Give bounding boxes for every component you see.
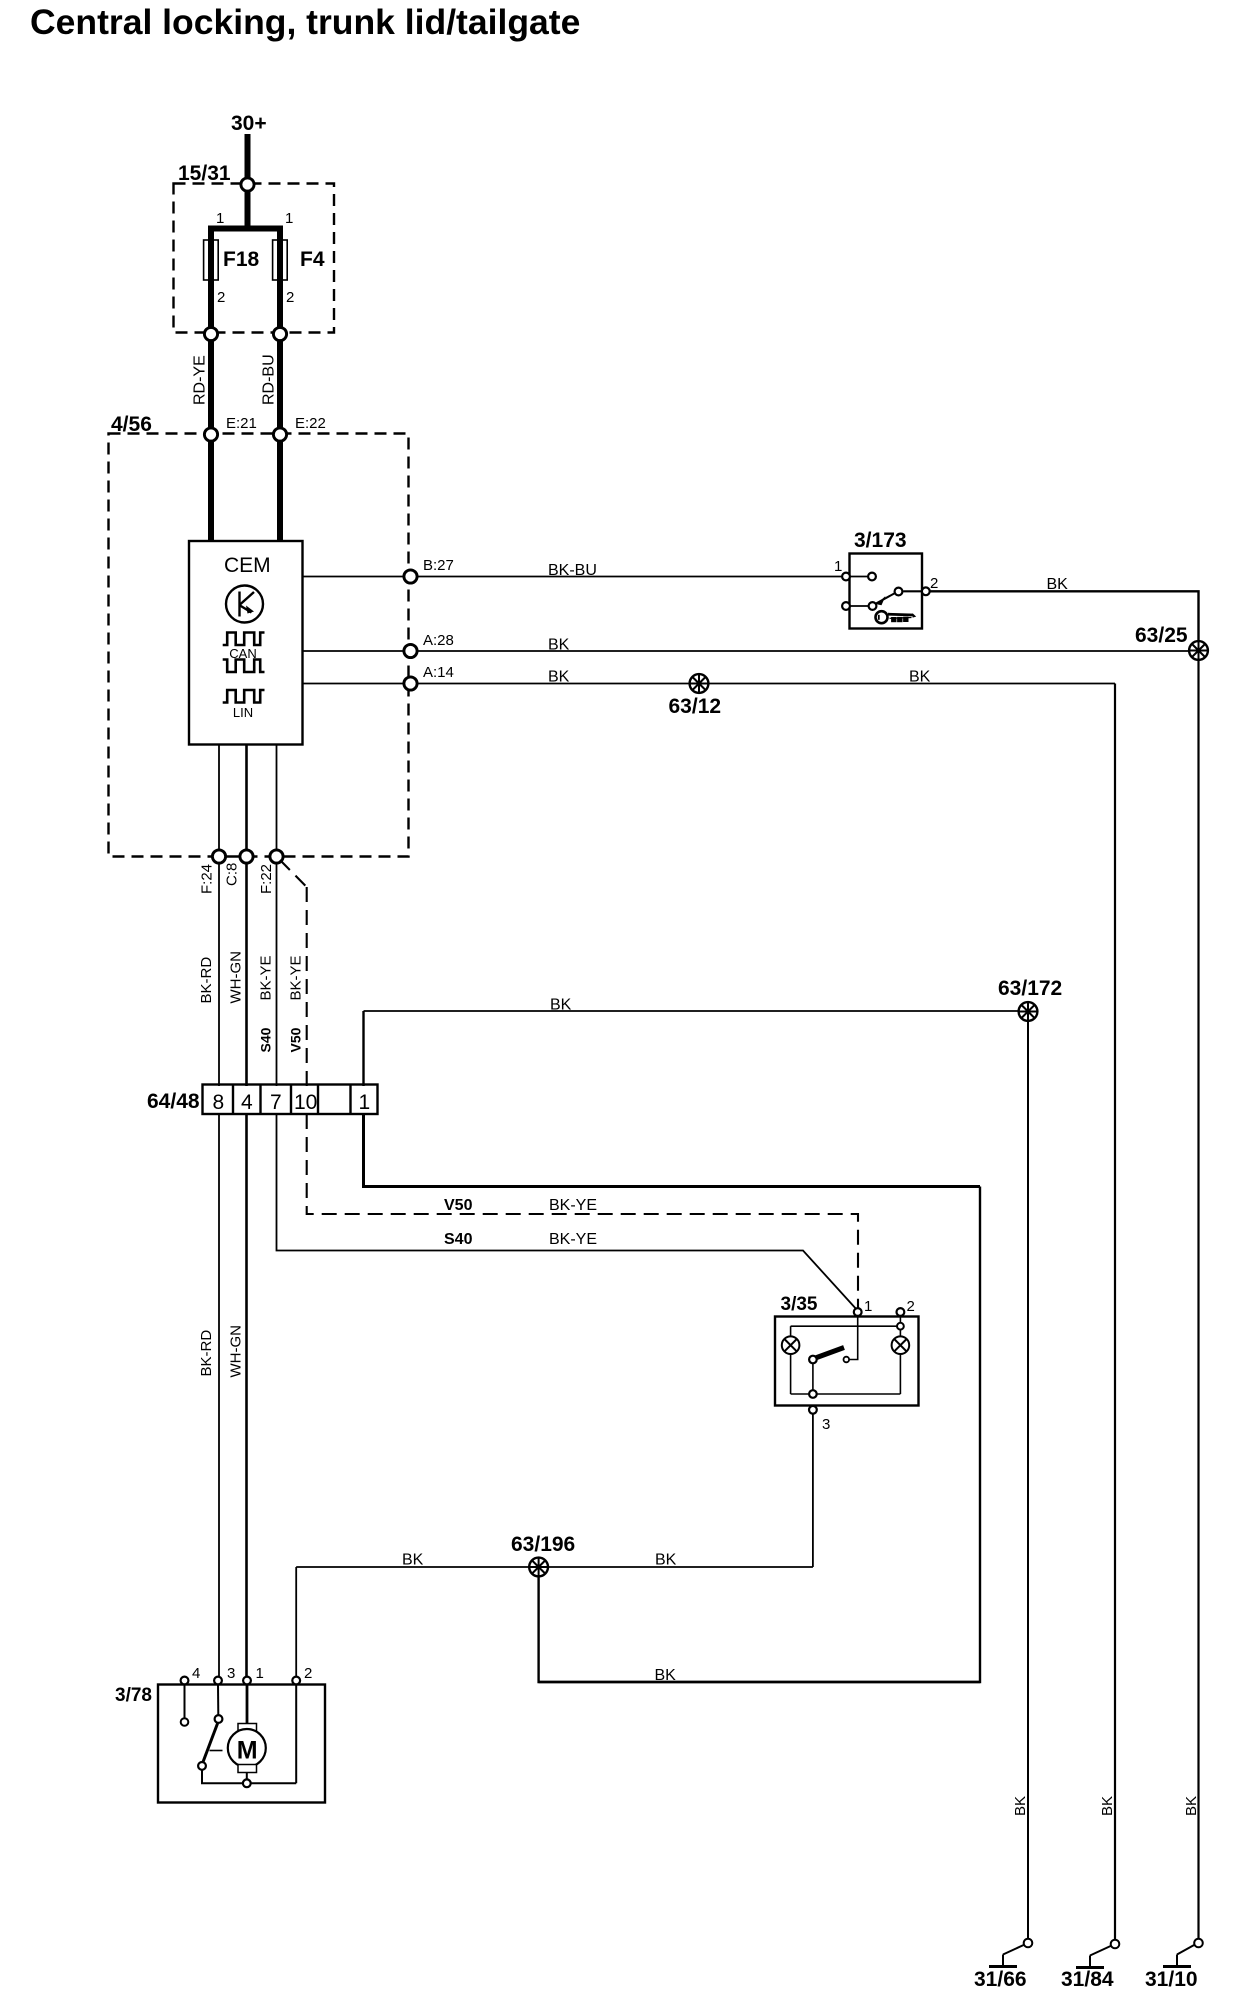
switch 3/35 pin 2: [897, 1308, 905, 1316]
svg-text:BK: BK: [1183, 1796, 1200, 1816]
svg-text:V50: V50: [444, 1197, 473, 1214]
3/78 switch top terminal wire: [217, 1685, 219, 1715]
svg-text:F:22: F:22: [258, 864, 275, 894]
svg-text:BK: BK: [1099, 1796, 1116, 1816]
wire S40 below connector: [277, 1114, 859, 1311]
3/78 switch tick: [210, 1750, 223, 1752]
fuse box 15/31 dashed outline: [174, 184, 335, 333]
wire BK-RD lower label: [198, 1330, 215, 1377]
wire RD-YE: [208, 341, 214, 428]
wire E:22 into CEM: [277, 442, 283, 542]
ground lead 31/10 vertical: [1197, 651, 1199, 1943]
wire CEM pin C:8 down: [245, 745, 248, 851]
svg-text:BK: BK: [548, 637, 570, 654]
svg-text:B:27: B:27: [423, 557, 454, 574]
svg-text:3/78: 3/78: [115, 1685, 152, 1706]
wire CEM pin F:22 down: [276, 745, 278, 851]
pin F:24 label: [199, 864, 216, 894]
wire BK-RD to 3/78: [218, 1114, 220, 1676]
svg-text:1: 1: [285, 210, 293, 227]
svg-text:63/196: 63/196: [511, 1533, 575, 1556]
junction node A:28: [404, 644, 417, 657]
svg-text:1: 1: [216, 210, 224, 227]
wire 63/196 down and right: [539, 1567, 980, 1682]
svg-text:LIN: LIN: [233, 705, 253, 720]
wire fuse F4 branch: [277, 226, 283, 331]
net S40 vertical label: [258, 1027, 274, 1052]
svg-text:2: 2: [907, 1298, 915, 1315]
CEM transistor symbol: [226, 586, 263, 623]
wire BK 31/10 label: [1183, 1796, 1200, 1816]
motor M top brush: [238, 1724, 257, 1732]
lamp right in 3/35: [892, 1336, 910, 1354]
switch 3/35 blade: [814, 1348, 844, 1359]
junction node E:22: [273, 428, 286, 441]
junction node F:22: [270, 850, 283, 863]
3/78 pin 2: [292, 1677, 300, 1685]
svg-text:31/84: 31/84: [1061, 1968, 1114, 1991]
junction node F:24: [212, 850, 225, 863]
wire WH-GN C:8 to connector: [245, 864, 248, 1086]
switch 3/173 inner contact 1: [851, 573, 876, 581]
svg-text:31/10: 31/10: [1145, 1968, 1198, 1991]
wire BK horizontal via 63/196: [296, 1566, 813, 1568]
svg-text:BK: BK: [655, 1552, 677, 1569]
wire 3/35 pin3 down: [812, 1414, 814, 1567]
wire BK via 63/12 to right: [418, 683, 1115, 685]
switch 3/173 pin 2: [922, 587, 930, 595]
wire BK from 3/173 to 63/25: [931, 591, 1199, 651]
svg-text:63/12: 63/12: [669, 695, 722, 718]
wire WH-GN to 3/78: [245, 1114, 248, 1676]
wire CEM B:27 stub: [303, 576, 404, 578]
switch 3/173 blade: [876, 588, 921, 606]
svg-text:1: 1: [834, 558, 842, 575]
switch 3/35 internal wiring: [791, 1317, 901, 1395]
wire BK-RD color label: [198, 957, 215, 1004]
wire BK-BU to 3/173: [418, 576, 846, 578]
switch 3/35 pivot: [809, 1356, 817, 1364]
wire RD-YE color label: [192, 355, 209, 405]
svg-text:2: 2: [304, 1665, 312, 1682]
switch 3/35 contact: [844, 1357, 850, 1363]
pin C:8 label: [224, 863, 241, 886]
svg-text:BK: BK: [1047, 576, 1069, 593]
svg-text:WH-GN: WH-GN: [228, 951, 245, 1004]
junction node F18 out: [204, 327, 217, 340]
wire node to fuse bus: [245, 190, 251, 231]
3/78 switch blade: [203, 1724, 218, 1763]
wire fuse F18 branch: [208, 226, 214, 331]
svg-text:F:24: F:24: [199, 864, 216, 894]
wire CEM A:28 stub: [303, 650, 404, 652]
svg-text:63/172: 63/172: [998, 977, 1062, 1000]
CEM LIN symbol: [223, 690, 265, 703]
svg-text:V50: V50: [288, 1027, 304, 1052]
svg-text:BK-YE: BK-YE: [258, 955, 275, 1000]
wire BK down right side: [539, 1187, 980, 1683]
CEM unit box: [189, 541, 303, 745]
ground splice 63/196 symbol: [529, 1558, 548, 1577]
svg-text:BK-RD: BK-RD: [198, 957, 215, 1004]
3/78 switch pivot: [198, 1762, 206, 1770]
svg-text:BK: BK: [548, 669, 570, 686]
switch 3/173 pin 1: [842, 573, 850, 581]
wire BK to 63/172: [364, 1010, 1029, 1012]
switch 3/35 bottom junction: [809, 1390, 817, 1398]
svg-text:10: 10: [294, 1091, 317, 1114]
3/78 switch top contact: [215, 1715, 223, 1723]
svg-text:C:8: C:8: [224, 863, 241, 886]
wire BK-YE V50 dashed diagonal: [280, 860, 307, 887]
svg-text:E:21: E:21: [226, 415, 257, 432]
junction node F4 out: [273, 327, 286, 340]
3/78 pin 4 open terminal: [181, 1718, 189, 1726]
wire BK-YE S40 to connector: [276, 864, 278, 1086]
svg-text:63/25: 63/25: [1135, 624, 1188, 647]
svg-text:BK-BU: BK-BU: [548, 562, 597, 579]
wire BK-YE V50 dashed down: [306, 887, 308, 1086]
svg-text:1: 1: [864, 1298, 872, 1315]
3/78 pin 4: [181, 1677, 189, 1685]
svg-text:4: 4: [241, 1091, 253, 1114]
svg-text:BK: BK: [402, 1552, 424, 1569]
CEM dashed boundary 4/56: [109, 434, 409, 857]
motor M bottom brush: [238, 1765, 257, 1773]
svg-text:S40: S40: [444, 1231, 473, 1248]
3/78 pin 1: [243, 1677, 251, 1685]
wire 64/48 pin1 down right: [364, 1114, 981, 1187]
CEM CAN symbol: [223, 633, 265, 673]
svg-text:CAN: CAN: [229, 646, 256, 661]
switch 3/173 lower pin: [842, 602, 850, 610]
junction node E:21: [204, 428, 217, 441]
net V50 vertical label: [288, 1027, 304, 1052]
svg-text:BK-YE: BK-YE: [549, 1231, 597, 1248]
switch 3/173 key symbol: [876, 611, 917, 623]
wire CEM A:14 stub: [303, 683, 404, 685]
wire BK-RD F:24 to connector: [218, 864, 220, 1086]
fuse F4 symbol: [273, 240, 288, 280]
fuse F18 symbol: [204, 240, 219, 280]
svg-text:E:22: E:22: [295, 415, 326, 432]
svg-text:RD-BU: RD-BU: [261, 354, 278, 405]
wire BK-YE V50 color label: [288, 955, 305, 1000]
3/78 motor feed wire: [246, 1685, 249, 1724]
svg-text:15/31: 15/31: [178, 162, 231, 185]
svg-text:8: 8: [213, 1091, 225, 1114]
svg-text:A:14: A:14: [423, 664, 454, 681]
svg-text:BK: BK: [1012, 1796, 1029, 1816]
junction node A:14: [404, 677, 417, 690]
ground terminal 31/10: [1163, 1939, 1203, 1967]
switch 3/173 inner contact 2: [851, 602, 877, 610]
svg-text:M: M: [237, 1737, 258, 1765]
motor bottom terminal: [243, 1779, 251, 1787]
svg-text:3: 3: [822, 1416, 830, 1433]
3/78 pin 4 stub: [184, 1685, 186, 1718]
svg-text:A:28: A:28: [423, 632, 454, 649]
svg-text:2: 2: [217, 289, 225, 306]
wire E:21 into CEM: [208, 442, 214, 542]
wire 64/48 pin1 up: [362, 1011, 364, 1086]
svg-text:S40: S40: [258, 1027, 274, 1052]
svg-text:BK: BK: [550, 997, 572, 1014]
wire WH-GN lower label: [228, 1325, 245, 1378]
svg-text:3: 3: [227, 1665, 235, 1682]
wire RD-BU: [277, 341, 283, 428]
svg-text:4: 4: [192, 1665, 200, 1682]
wire BK to ground 63/25: [418, 650, 1199, 652]
svg-text:F4: F4: [300, 248, 325, 271]
wire WH-GN color label: [228, 951, 245, 1004]
svg-text:BK: BK: [909, 669, 931, 686]
svg-text:F18: F18: [223, 248, 260, 271]
svg-text:2: 2: [286, 289, 294, 306]
ground terminal 31/66: [989, 1939, 1032, 1967]
junction node 15/31 top: [241, 178, 254, 191]
svg-text:1: 1: [359, 1091, 371, 1114]
wire 30+ feed: [245, 134, 251, 180]
svg-text:3/173: 3/173: [854, 529, 907, 552]
switch 3/35 pin 1: [854, 1308, 862, 1316]
svg-text:RD-YE: RD-YE: [192, 355, 209, 405]
switch 3/173 box: [850, 554, 923, 629]
motor unit 3/78 box: [158, 1685, 325, 1803]
svg-text:2: 2: [930, 575, 938, 592]
motor M body: [228, 1729, 266, 1767]
junction node B:27: [404, 570, 417, 583]
3/78 pin 3: [214, 1677, 222, 1685]
svg-text:64/48: 64/48: [147, 1090, 200, 1113]
wire fuse feed bus: [208, 226, 283, 232]
lamp left in 3/35: [782, 1336, 800, 1354]
wire CEM pin F:24 down: [218, 745, 220, 851]
svg-text:31/66: 31/66: [974, 1968, 1027, 1991]
connector 64/48 shell: [203, 1085, 378, 1115]
wire RD-BU color label: [261, 354, 278, 405]
ground splice 63/25 symbol: [1189, 641, 1208, 660]
svg-text:Central locking, trunk lid/tai: Central locking, trunk lid/tailgate: [30, 2, 580, 42]
ground terminal 31/84: [1076, 1940, 1119, 1968]
pin F:22 label: [258, 864, 275, 894]
svg-text:BK-YE: BK-YE: [288, 955, 305, 1000]
switch 3/35 pin 3: [809, 1406, 817, 1414]
ground splice 63/12 symbol: [690, 674, 709, 693]
wire BK 31/84 label: [1099, 1796, 1116, 1816]
svg-text:WH-GN: WH-GN: [228, 1325, 245, 1378]
svg-text:CEM: CEM: [224, 554, 271, 577]
svg-text:BK-RD: BK-RD: [198, 1330, 215, 1377]
svg-text:BK-YE: BK-YE: [549, 1197, 597, 1214]
wire BK-YE S40 color label: [258, 955, 275, 1000]
ground splice 63/172 symbol: [1019, 1002, 1038, 1021]
wire V50 dashed below connector: [307, 1114, 858, 1310]
wire BK 31/66 label: [1012, 1796, 1029, 1816]
svg-text:30+: 30+: [231, 112, 267, 135]
junction node C:8: [240, 850, 253, 863]
ground lead 31/84 vertical: [1114, 684, 1116, 1944]
svg-text:3/35: 3/35: [781, 1294, 818, 1315]
switch 3/35 pin2 inner node: [897, 1323, 904, 1330]
switch 3/35 box: [775, 1317, 919, 1406]
ground lead 31/66 vertical: [1027, 1011, 1029, 1943]
3/78 bottom rail: [201, 1685, 296, 1783]
svg-text:7: 7: [270, 1091, 282, 1114]
svg-text:1: 1: [256, 1665, 264, 1682]
wire BK to 3/78 pin 2: [295, 1567, 297, 1676]
